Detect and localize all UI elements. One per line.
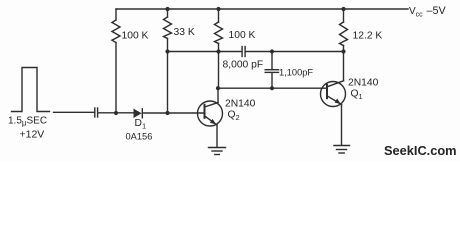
svg-text:1.5μSEC: 1.5μSEC [8, 116, 47, 128]
svg-text:2N140: 2N140 [225, 99, 256, 110]
svg-text:Vcc: Vcc [409, 6, 423, 19]
svg-text:1,100pF: 1,100pF [279, 67, 313, 77]
svg-text:100 K: 100 K [229, 30, 256, 41]
svg-text:Q1: Q1 [351, 89, 363, 102]
svg-text:+12V: +12V [20, 129, 45, 141]
svg-text:SeekIC.com: SeekIC.com [384, 143, 457, 158]
svg-text:12.2 K: 12.2 K [353, 31, 383, 42]
svg-text:8,000 pF: 8,000 pF [223, 60, 264, 71]
svg-text:2N140: 2N140 [348, 78, 379, 89]
svg-text:Q2: Q2 [228, 110, 240, 123]
svg-text:33 K: 33 K [174, 27, 195, 38]
svg-text:100 K: 100 K [122, 31, 149, 42]
svg-text:D1: D1 [135, 118, 147, 131]
svg-text:–5V: –5V [427, 5, 447, 17]
svg-text:0A156: 0A156 [126, 132, 153, 142]
